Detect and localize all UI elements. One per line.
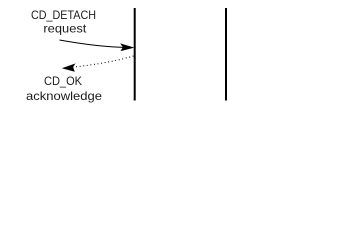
lifeline 2 [225,8,227,101]
arrowhead dotted acknowledge [62,63,76,71]
wire dotted acknowledge line [65,56,134,68]
svg-text:CD_OK: CD_OK [44,74,82,88]
svg-text:request: request [43,22,87,36]
svg-text:acknowledge: acknowledge [26,89,102,103]
lifeline 1 [134,8,136,101]
arrowhead solid message [120,43,134,51]
svg-text:CD_DETACH: CD_DETACH [31,8,96,22]
wire solid message line [60,40,133,48]
